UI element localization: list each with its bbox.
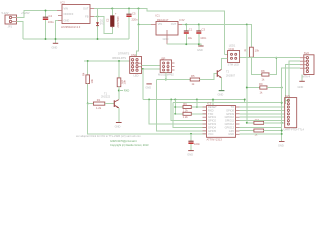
- junction: [97, 16, 99, 18]
- ground under X2: [145, 84, 151, 90]
- svg-text:GPIO9: GPIO9: [226, 112, 234, 116]
- junction: [142, 68, 144, 70]
- svg-text:CN1: CN1: [131, 53, 137, 57]
- wire IC3 TX to SV1 pin3: [240, 106, 285, 108]
- wire T2 collector to LED connector pin: [222, 59, 228, 70]
- junction: [212, 99, 214, 101]
- wire X2 lower branch to bus: [142, 69, 144, 100]
- ground: [278, 142, 285, 148]
- junction: [87, 103, 89, 105]
- wire R8 right up to SV2 line: [269, 58, 276, 75]
- svg-text:5-12V: 5-12V: [2, 11, 9, 15]
- wire SV2 pin2 down to SV1: [285, 61, 300, 100]
- transistor T2: [200, 69, 236, 79]
- svg-text:GPIO12: GPIO12: [225, 122, 235, 126]
- svg-text:IC1: IC1: [156, 14, 161, 18]
- svg-text:2N2907: 2N2907: [226, 74, 236, 78]
- junction: [170, 99, 172, 101]
- transistor T1: [101, 91, 119, 108]
- svg-text:GND: GND: [52, 46, 58, 50]
- junction: [281, 122, 283, 124]
- junction: [246, 87, 248, 89]
- wire serial feed vertical: [174, 100, 176, 114]
- junction: [185, 24, 187, 26]
- wire bus1 corner down to R6 line: [196, 100, 198, 108]
- ground: [218, 91, 225, 97]
- wire caps to ground: [167, 44, 201, 46]
- wire T2 emitter to ground: [221, 78, 223, 91]
- junction: [246, 122, 248, 124]
- junction: [174, 99, 176, 101]
- svg-text:GPIO11: GPIO11: [225, 119, 235, 123]
- IC3 pin stubs right: [236, 107, 240, 134]
- resistor R4: [82, 61, 95, 104]
- resistor R6: [175, 102, 206, 113]
- svg-text:IC3: IC3: [207, 102, 212, 106]
- wire IC2 GND pin to rail and ground: [56, 21, 59, 44]
- svg-text:GND: GND: [187, 153, 193, 157]
- junction: [55, 38, 57, 40]
- svg-text:GPIO1: GPIO1: [208, 115, 216, 119]
- svg-text:ISP: ISP: [161, 56, 166, 60]
- svg-text:GPIO2: GPIO2: [208, 119, 216, 123]
- junction: [174, 106, 176, 108]
- resistor R1: [88, 98, 115, 110]
- connector SV1: [284, 94, 305, 132]
- svg-text:avr adapter/rf-link for hi% to: avr adapter/rf-link for hi% to TTL-232R …: [76, 134, 141, 138]
- svg-text:C3: C3: [202, 28, 206, 32]
- svg-text:+5V/9V: +5V/9V: [21, 11, 30, 15]
- connector X2: [130, 53, 142, 78]
- junction: [138, 24, 140, 26]
- IC3 microcontroller: [207, 102, 236, 142]
- wire stub to IC3 top: [212, 100, 214, 106]
- wire down to connector X2 top: [137, 25, 139, 57]
- junction: [87, 60, 89, 62]
- wire bus1/bus2 tie: [244, 100, 246, 103]
- wire X1 pin1 to VIN rail: [17, 11, 58, 18]
- junction: [118, 90, 120, 92]
- IC3 pin names: [208, 105, 235, 136]
- node: junction C4 top: [45, 10, 47, 12]
- svg-text:GIR/C3270@privmail.it: GIR/C3270@privmail.it: [110, 139, 137, 143]
- ground: [115, 123, 122, 129]
- svg-text:GND: GND: [228, 132, 234, 136]
- svg-text:R6: R6: [183, 102, 187, 106]
- junction: [246, 24, 248, 26]
- wires X2 to ISP: [142, 64, 161, 66]
- svg-text:RXD: RXD: [208, 108, 214, 112]
- svg-text:5V1: 5V1: [100, 22, 105, 26]
- svg-text:C2: C2: [106, 18, 110, 22]
- junction: [198, 24, 200, 26]
- svg-text:STM LED: STM LED: [228, 62, 239, 66]
- wire 3.3V line from IC1 OUT: [182, 25, 251, 48]
- svg-text:10k: 10k: [90, 79, 94, 84]
- resistor R5: [157, 74, 215, 86]
- svg-text:VCC: VCC: [208, 132, 214, 136]
- resistor R7: [175, 112, 206, 119]
- svg-text:R3: R3: [244, 49, 248, 53]
- svg-text:100u: 100u: [48, 20, 54, 24]
- wire R3 bottom to resistor R8: [251, 57, 261, 74]
- svg-text:UART-FTDI-TTL4: UART-FTDI-TTL4: [284, 128, 305, 132]
- junction: [281, 102, 283, 104]
- junction: [244, 99, 246, 101]
- wire OUT to FB tie: [97, 9, 99, 17]
- wire L1: [149, 100, 206, 125]
- svg-text:GND: GND: [218, 93, 224, 97]
- junction: [275, 57, 277, 59]
- svg-text:TXD: TXD: [208, 112, 213, 116]
- junction: [97, 38, 99, 40]
- svg-text:3.3V: 3.3V: [179, 18, 185, 22]
- svg-text:R4: R4: [82, 72, 86, 76]
- junction: [198, 43, 200, 45]
- wire 5V output rail from IC2 OUT: [94, 9, 225, 55]
- svg-text:100n: 100n: [194, 142, 200, 146]
- wire R9 to gnd vertical: [267, 87, 282, 89]
- svg-text:1.2k: 1.2k: [96, 106, 102, 110]
- svg-text:VIN: VIN: [158, 22, 162, 26]
- voltage regulator IC2 LP2950: [57, 1, 94, 29]
- svg-text:RB/D3-RTS: RB/D3-RTS: [112, 56, 126, 60]
- svg-text:REG1117: REG1117: [157, 18, 169, 22]
- resistor R2: [117, 61, 126, 100]
- junction: [185, 43, 187, 45]
- svg-text:R9: R9: [259, 82, 263, 86]
- wire T1 emitter to ground: [118, 108, 120, 122]
- svg-text:OUT: OUT: [83, 7, 89, 11]
- svg-text:100u/16V: 100u/16V: [116, 16, 120, 28]
- node: junction C4 bottom: [45, 38, 47, 40]
- svg-text:RESET: RESET: [208, 105, 217, 109]
- connector SV2: [300, 51, 314, 79]
- svg-text:GPIO13: GPIO13: [225, 125, 235, 129]
- wire SV2 pin3 down to SV1: [285, 65, 300, 104]
- junction: [148, 99, 150, 101]
- svg-text:DTR/RTS: DTR/RTS: [118, 51, 129, 55]
- junction: [138, 8, 140, 10]
- svg-text:C4: C4: [49, 14, 53, 18]
- svg-text:1.2k: 1.2k: [183, 108, 189, 112]
- resistor R10: [254, 121, 264, 124]
- svg-text:1.2k: 1.2k: [183, 115, 189, 119]
- svg-text:GND: GND: [298, 85, 304, 89]
- junction: [196, 106, 198, 108]
- wire T1 collector stub to net label: [119, 90, 123, 92]
- svg-text:GND: GND: [145, 86, 151, 90]
- junction: [281, 133, 283, 135]
- junction: [118, 60, 120, 62]
- resistor R11: [254, 129, 264, 132]
- junction: [174, 113, 176, 115]
- svg-text:R5: R5: [191, 74, 195, 78]
- svg-text:IC2: IC2: [61, 1, 66, 5]
- wire SV2 pin4 down to SV1 gnd: [282, 68, 300, 141]
- svg-text:JP1: JP1: [8, 25, 13, 29]
- svg-text:GND: GND: [278, 143, 284, 147]
- wire R9 feed: [247, 25, 254, 123]
- capacitor C3 100n: [196, 25, 206, 45]
- capacitor C4: [43, 11, 54, 40]
- capacitor C2 electrolytic: [106, 9, 120, 29]
- svg-text:C5: C5: [132, 11, 136, 15]
- capacitor C5 220n: [126, 9, 138, 40]
- ground: [52, 43, 59, 49]
- wire bus1: [143, 99, 245, 101]
- wire L2: [173, 103, 207, 128]
- resistor R8: [261, 69, 269, 81]
- svg-text:LED: LED: [134, 74, 139, 78]
- svg-text:SV2: SV2: [304, 51, 310, 55]
- diode D1: [96, 18, 105, 25]
- ground: [187, 151, 194, 157]
- svg-text:RXD: RXD: [124, 89, 130, 93]
- wire SV2 gnd: [301, 75, 303, 82]
- svg-text:100n: 100n: [200, 36, 206, 40]
- svg-text:GND: GND: [64, 19, 70, 23]
- svg-text:GND: GND: [197, 48, 203, 52]
- junction: [190, 133, 192, 135]
- wire RTS net line: [84, 60, 130, 62]
- wire base net down to VCC line: [88, 104, 207, 134]
- svg-text:10k: 10k: [122, 80, 126, 85]
- svg-text:MTA-4: MTA-4: [303, 75, 311, 79]
- resistor R9: [259, 82, 267, 94]
- wire to IC1 VIN: [139, 9, 152, 25]
- wire bus2: [173, 102, 282, 104]
- wire LED connector to SV2 pin1: [240, 57, 300, 59]
- svg-text:ATTINY2313: ATTINY2313: [207, 138, 223, 142]
- svg-text:R8: R8: [261, 69, 265, 73]
- voltage regulator IC1 REG1117: [151, 14, 185, 45]
- ground: [298, 81, 305, 89]
- svg-text:TX: TX: [231, 105, 235, 109]
- svg-text:ON/OFF: ON/OFF: [64, 12, 74, 16]
- svg-text:Copyright (c) Davide Gironi, 2: Copyright (c) Davide Gironi, 2013: [110, 143, 149, 147]
- junction: [281, 87, 283, 89]
- wire FB to ground through D1: [97, 17, 99, 40]
- svg-text:GPIO4: GPIO4: [208, 125, 216, 129]
- svg-text:GPIO8: GPIO8: [226, 108, 234, 112]
- wire ground rail: [23, 38, 129, 40]
- svg-text:OUT: OUT: [171, 22, 177, 26]
- svg-text:GND: GND: [115, 125, 121, 129]
- wire 5V drop into LED connector pin1: [225, 54, 228, 56]
- resistor R3: [244, 47, 259, 57]
- junction: [196, 99, 198, 101]
- capacitor C1 10u: [184, 25, 193, 45]
- svg-text:LP2950ACZ-3.3: LP2950ACZ-3.3: [61, 25, 81, 29]
- wires IC3 right to SV1: [240, 109, 285, 111]
- wire wrap lines: [240, 126, 282, 128]
- capacitor C7 100n decoupling: [188, 134, 200, 151]
- wire R5 line down to IC3: [157, 80, 207, 131]
- svg-text:220n: 220n: [132, 17, 138, 21]
- connector X3 LED: [228, 44, 240, 67]
- svg-text:R1: R1: [97, 98, 101, 102]
- wire L4: [171, 100, 206, 121]
- svg-text:10u: 10u: [188, 36, 193, 40]
- svg-text:C1: C1: [189, 28, 193, 32]
- junction: [111, 8, 113, 10]
- connector ISP: [158, 56, 175, 76]
- svg-text:SV1: SV1: [285, 94, 291, 98]
- connector X1: [2, 11, 30, 29]
- wire FB line: [94, 17, 112, 34]
- svg-text:10k: 10k: [255, 49, 260, 53]
- ground: [197, 46, 204, 52]
- svg-text:VIN: VIN: [64, 6, 68, 10]
- svg-text:4k7: 4k7: [255, 118, 260, 122]
- junction: [281, 130, 283, 132]
- svg-text:CN4: CN4: [229, 47, 235, 51]
- svg-text:FB: FB: [85, 15, 89, 19]
- svg-text:GPIO10: GPIO10: [225, 115, 235, 119]
- wire X1 pin2 down to ground rail: [17, 22, 24, 40]
- junction: [165, 79, 167, 81]
- svg-text:2N2222: 2N2222: [101, 95, 111, 99]
- svg-text:GPIO3: GPIO3: [208, 122, 216, 126]
- svg-text:GND: GND: [163, 37, 169, 41]
- IC3 pin stubs left: [203, 107, 207, 134]
- wire ISP bottom pin to R5 line: [165, 73, 167, 80]
- junction: [128, 8, 130, 10]
